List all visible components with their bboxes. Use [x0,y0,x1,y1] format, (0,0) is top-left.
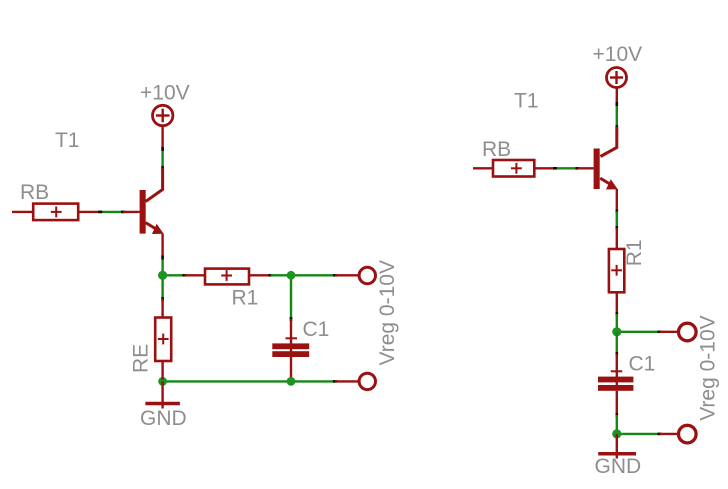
svg-text:GND: GND [595,455,642,478]
resistor RB body (left) [33,204,78,221]
pin overlap tick [290,317,293,321]
wire: supply to collector (net, left) [161,149,163,168]
pin overlap tick [615,102,618,106]
svg-text:RB: RB [20,181,49,204]
capacitor C1 polarity mark (left) [286,337,298,339]
pin of supply symbol (left) [161,126,163,149]
junction node GNDL2 (left) [287,377,296,386]
pin: RB right (left) [78,211,100,213]
svg-text:GND: GND [140,407,187,430]
terminal pad upper (right) [679,323,697,341]
svg-text:C1: C1 [303,318,330,341]
junction node E (left) [158,271,167,280]
wire: node OUT1 down to C1 (net, left) [290,275,292,319]
wire: R1 to node OUT2 (net, right) [616,314,618,332]
wire: emitter to R1 (net, right) [616,212,618,229]
pin overlap tick [183,274,187,277]
pin: C1 top (right) [616,354,618,386]
wire: RB to base (net, right) [555,167,578,169]
wire: left stub into resistor RB (right) [473,167,493,169]
svg-text:RB: RB [482,138,511,161]
capacitor C1 top plate (right) [598,377,633,383]
supply symbol +10V (right) [607,68,627,88]
svg-text:RE: RE [130,344,153,373]
wire: left stub into resistor RB (left) [12,211,33,213]
transistor T1 emitter arrowhead (right) [606,179,618,189]
pin: RB right (right) [534,167,555,169]
pin: R1 left (left) [185,274,206,276]
wire: RB to base (net, left) [100,211,123,213]
pin overlap tick [161,166,164,170]
junction node GNDL1 (left) [158,377,167,386]
pin overlap tick [615,352,618,356]
transistor T1 collector lead (left) [146,168,163,202]
resistor R1 body (right) [609,249,624,292]
wire: supply to collector (net, right) [616,104,618,127]
capacitor C1 bottom plate (left) [272,351,309,357]
terminal pad lower (right) [679,425,697,443]
transistor T1 base bar (left) [140,190,146,234]
capacitor C1 top plate (left) [272,343,309,349]
junction node OUT2 (right) [612,327,621,336]
junction node GND2 (right) [612,429,621,438]
pin overlap tick [269,274,273,277]
terminal pad upper (left) [359,267,375,283]
ground GND bar (right) [598,452,636,456]
pin: terminal upper stub (left) [335,274,359,276]
transistor T1 emitter lead (right) [600,178,609,184]
svg-text:Vreg 0-10V: Vreg 0-10V [376,260,399,365]
pin overlap tick [161,297,164,301]
pin overlap tick [290,378,293,382]
transistor T1 base bar (right) [594,149,600,190]
pin: RE top (left) [161,299,163,318]
wire: node GND2 to terminal (net, right) [617,433,660,435]
supply symbol +10V (left) [153,105,173,125]
terminal pad lower (left) [359,373,375,389]
pin: R1 right (left) [249,274,271,276]
wire: bottom net RE to C1 (left) [163,380,291,382]
pin overlap tick [615,312,618,316]
wire: R1 to node OUT1 (net, left) [271,274,292,276]
pin overlap tick [576,167,580,170]
pin: emitter wire down (left) [161,234,163,258]
wire: emitter to node E (left) [161,258,163,276]
pin: R1 top (right) [616,228,618,249]
wire: bottom net C1 to terminal (left) [291,380,335,382]
ground GND pin (right) [616,434,618,459]
transistor T1 collector lead (right) [600,127,616,157]
pin overlap tick [658,330,662,333]
pin overlap tick [98,211,102,214]
pin overlap tick [615,413,618,417]
junction node OUT1 (left) [287,271,296,280]
pin overlap tick [161,256,164,260]
resistor RB body (right) [493,160,534,177]
pin overlap tick [553,167,557,170]
pin: base of T1 (left) [123,211,140,213]
pin: C1 bottom (left) [290,357,292,380]
svg-text:T1: T1 [514,90,539,113]
wire: node OUT2 down to C1 (net, right) [616,332,618,354]
pin overlap tick [333,380,337,383]
pin overlap tick [161,147,164,151]
ground GND bar (left) [145,402,180,405]
svg-text:C1: C1 [629,352,656,375]
svg-text:Vreg 0-10V: Vreg 0-10V [696,315,719,420]
pin overlap tick [615,125,618,129]
wire: node OUT1 to terminal (net, left) [291,274,335,276]
capacitor C1 bottom plate (right) [598,385,633,391]
transistor T1 emitter lead (left) [146,223,155,229]
pin: C1 top (left) [290,319,292,352]
pin overlap tick [333,274,337,277]
pin: terminal upper stub (right) [660,331,679,333]
svg-text:+10V: +10V [140,82,190,105]
svg-text:T1: T1 [55,129,80,152]
pin: terminal lower stub (right) [660,433,679,435]
wire: node OUT2 to terminal (net, right) [617,331,660,333]
pin: terminal lower stub (left) [335,380,359,382]
ground GND pin (left) [161,381,163,408]
pin overlap tick [615,226,618,230]
pin: R1 bottom (right) [616,292,618,314]
svg-text:R1: R1 [232,287,259,310]
resistor RE body (left) [155,318,171,362]
pin: RE bottom (left) [161,361,163,380]
svg-text:R1: R1 [623,239,646,266]
svg-text:+10V: +10V [593,43,643,66]
wire: C1 to node GND2 (net, right) [616,415,618,434]
pin overlap tick [615,210,618,214]
pin of supply symbol (right) [616,88,618,105]
pin overlap tick [658,433,662,436]
pin: emitter wire down (right) [616,189,618,212]
pin overlap tick [121,211,125,214]
pin: base of T1 (right) [578,167,594,169]
wire: node E horizontal to R1 (net, left) [163,274,185,276]
resistor R1 body (left) [205,269,249,285]
wire: node E to RE (net, left) [161,276,163,300]
transistor T1 emitter arrowhead (left) [152,224,164,234]
pin: C1 bottom (right) [616,391,618,415]
capacitor C1 polarity mark (right) [611,370,623,372]
